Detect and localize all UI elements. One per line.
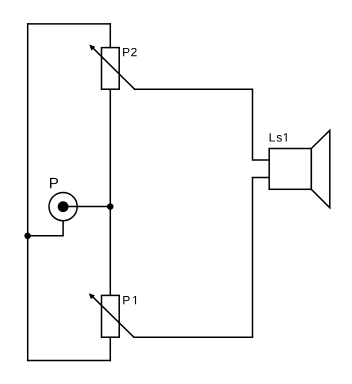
label Ls1 — [270, 133, 287, 141]
wire: bottom edge of left loop — [28, 360, 111, 362]
potentiometer P1 — [89, 293, 134, 337]
wire: left edge of left loop — [27, 24, 29, 361]
wire: P2 pin 2 to P1 pin 1 (left vertical bus) — [109, 89, 111, 295]
wire: P1 pin 2 to bottom edge — [109, 337, 111, 360]
junction: left edge / sleeve node — [24, 233, 31, 240]
potentiometer P2 — [89, 45, 135, 90]
loudspeaker Ls1 — [269, 130, 330, 208]
label P1 — [123, 296, 136, 304]
wire: P2 wiper to speaker Ls1 top pin — [135, 89, 270, 160]
junction: bus / connector tip node — [107, 203, 114, 210]
label P — [50, 178, 58, 188]
wire: speaker Ls1 bottom pin to P1 wiper — [134, 178, 269, 338]
wire: connector P sleeve to left edge — [28, 221, 63, 236]
wire: connector P tip to vertical bus — [63, 206, 110, 208]
connector P (phone jack) — [49, 193, 77, 221]
label P2 — [123, 48, 137, 56]
wire: top edge of left loop — [28, 23, 111, 25]
wire: top edge to P2 pin 1 — [109, 24, 111, 48]
